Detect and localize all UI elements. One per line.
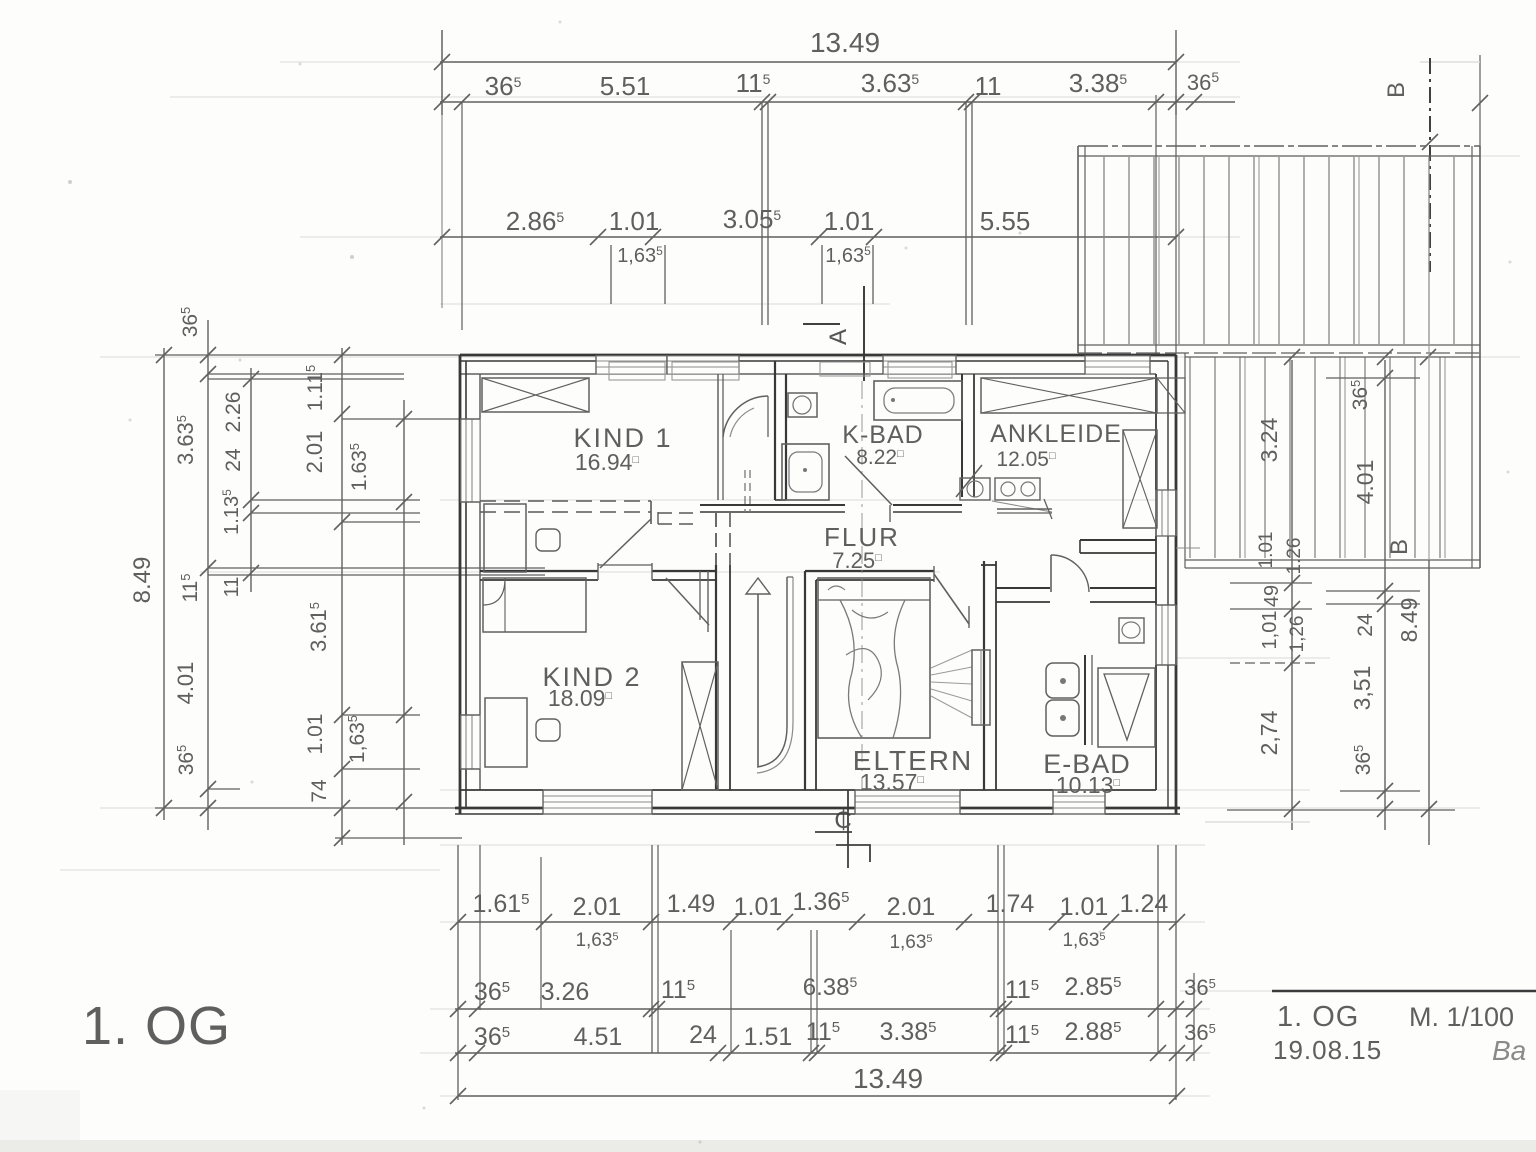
svg-text:2.01: 2.01 [887,893,936,921]
svg-text:A: A [825,329,852,345]
svg-text:4.51: 4.51 [574,1023,623,1051]
svg-text:1,26: 1,26 [1287,616,1308,653]
svg-text:13.57□: 13.57□ [860,769,925,795]
svg-text:2.26: 2.26 [222,392,245,433]
svg-text:1,01: 1,01 [1259,611,1281,650]
svg-text:2.865: 2.865 [506,206,565,236]
svg-text:3.385: 3.385 [1069,68,1128,98]
svg-text:4.01: 4.01 [1352,460,1378,505]
svg-text:3.635: 3.635 [861,68,920,98]
svg-text:1.01: 1.01 [734,893,783,921]
svg-text:₵: ₵ [834,807,851,834]
svg-text:3.26: 3.26 [541,978,590,1006]
svg-text:M. 1/100: M. 1/100 [1409,1002,1514,1032]
svg-text:1,635: 1,635 [889,932,932,953]
svg-text:1.51: 1.51 [744,1023,793,1051]
svg-text:24: 24 [1354,613,1377,637]
svg-text:Ba: Ba [1492,1035,1526,1066]
svg-text:K-BAD: K-BAD [842,421,923,449]
svg-text:5.55: 5.55 [980,206,1031,236]
svg-text:11: 11 [975,71,1002,101]
svg-text:24: 24 [689,1021,717,1049]
svg-text:B: B [1383,82,1410,98]
svg-text:7.25□: 7.25□ [832,548,882,573]
svg-text:B: B [1386,539,1413,555]
svg-text:1.26: 1.26 [1284,538,1305,575]
svg-text:8.49: 8.49 [1396,598,1422,643]
svg-text:49: 49 [1261,585,1283,607]
svg-text:1.01: 1.01 [1256,532,1277,569]
svg-text:2.855: 2.855 [1064,973,1121,1001]
svg-text:3.24: 3.24 [1256,417,1282,462]
svg-text:13.49: 13.49 [810,27,880,58]
svg-text:6.385: 6.385 [803,974,858,1001]
svg-text:8.22□: 8.22□ [856,446,904,469]
svg-text:24: 24 [222,448,245,472]
svg-text:ANKLEIDE: ANKLEIDE [990,420,1122,448]
svg-text:13.49: 13.49 [853,1063,923,1094]
svg-text:3.615: 3.615 [306,602,331,652]
svg-text:2.01: 2.01 [302,431,327,474]
svg-text:1.74: 1.74 [986,890,1035,918]
svg-text:1.24: 1.24 [1120,890,1169,918]
svg-text:2.01: 2.01 [573,893,622,921]
svg-text:16.94□: 16.94□ [575,449,640,475]
svg-text:11: 11 [221,577,243,598]
svg-text:1.01: 1.01 [609,206,660,236]
svg-text:1.01: 1.01 [304,714,327,755]
svg-text:12.05□: 12.05□ [996,448,1056,471]
svg-text:1.365: 1.365 [792,888,849,916]
svg-text:74: 74 [308,779,331,803]
svg-text:3.055: 3.055 [723,204,782,234]
svg-text:1,635: 1,635 [575,930,618,951]
svg-text:5.51: 5.51 [600,71,651,101]
svg-text:1.49: 1.49 [667,890,716,918]
svg-text:1. OG: 1. OG [82,996,231,1056]
svg-text:3.385: 3.385 [879,1018,936,1046]
svg-text:1.615: 1.615 [472,890,529,918]
svg-text:3.635: 3.635 [173,415,198,465]
svg-text:1. OG: 1. OG [1277,1001,1359,1033]
svg-text:8.49: 8.49 [129,557,156,604]
svg-text:3,51: 3,51 [1349,666,1375,711]
svg-text:2.885: 2.885 [1064,1018,1121,1046]
svg-text:4.01: 4.01 [173,662,198,705]
svg-text:2,74: 2,74 [1256,710,1282,755]
svg-text:10.13□: 10.13□ [1056,772,1121,798]
svg-text:18.09□: 18.09□ [548,685,613,711]
svg-text:1.01: 1.01 [824,206,875,236]
svg-text:19.08.15: 19.08.15 [1273,1035,1382,1065]
svg-text:1.01: 1.01 [1060,893,1109,921]
